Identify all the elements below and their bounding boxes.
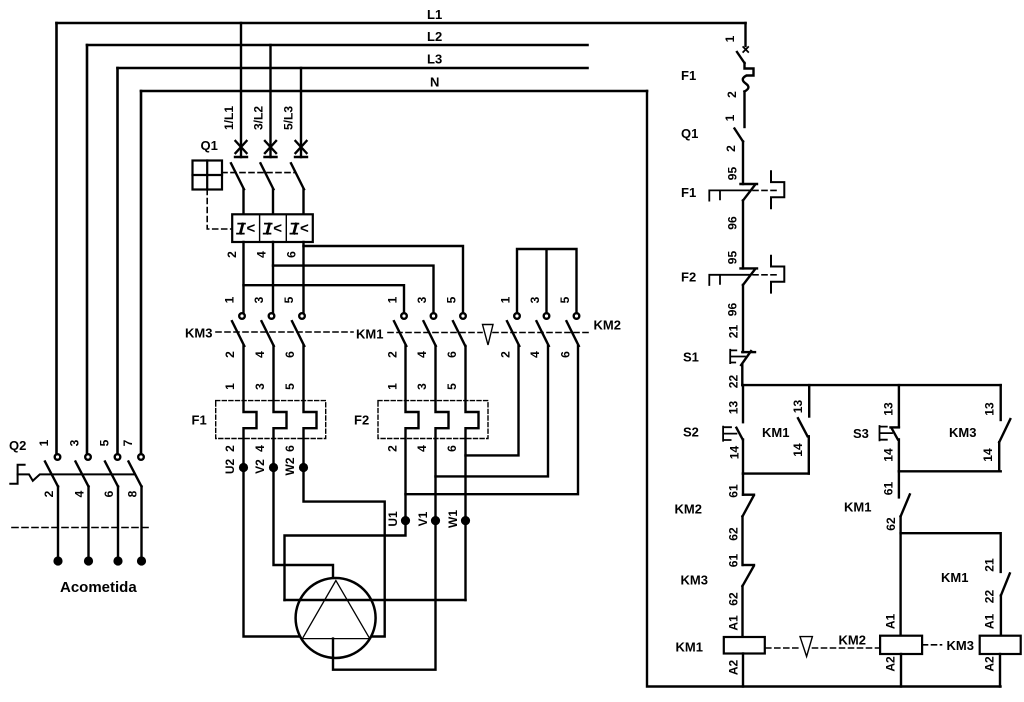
- svg-text:3: 3: [68, 439, 82, 446]
- wire KM1 aux lower: [808, 436, 810, 473]
- relay contact F1 NC 95-96: [741, 183, 758, 185]
- button S3 NO contact: [891, 426, 899, 428]
- svg-text:F1: F1: [681, 68, 696, 83]
- wire L3 left drop to Q2: [116, 68, 119, 454]
- relay F1 thermal element pole2: [274, 346, 287, 464]
- relay Q1 overcurrent trip box I<: [232, 214, 313, 242]
- svg-text:13: 13: [791, 400, 805, 414]
- wire phase B feed to KM1 pole3: [273, 266, 434, 314]
- svg-text:62: 62: [884, 517, 898, 531]
- svg-text:22: 22: [982, 590, 996, 604]
- contact KM3 aux NO 13-14: [999, 419, 1010, 442]
- wire KM2NC to KM3NC: [741, 516, 743, 565]
- svg-text:6: 6: [102, 490, 116, 497]
- wire S3 parallel join: [899, 470, 1001, 472]
- svg-text:1: 1: [386, 296, 400, 303]
- coil KM3 box: [980, 636, 1021, 654]
- svg-text:V1: V1: [416, 511, 430, 526]
- wire N line: [141, 90, 647, 93]
- node U2 junction dot: [240, 464, 247, 471]
- relay F1 thermal element pole1: [244, 346, 257, 464]
- wire Q2 pole4 lower: [140, 487, 142, 559]
- contactor KM1 pole2 contact: [431, 313, 437, 319]
- svg-text:14: 14: [728, 446, 742, 460]
- wire L1 line: [57, 22, 746, 25]
- svg-text:5: 5: [558, 296, 572, 303]
- contactor KM2 pole1 contact: [514, 313, 520, 319]
- wire Q1 pole3 to overload: [302, 189, 304, 214]
- svg-text:13: 13: [983, 402, 997, 416]
- svg-text:KM1: KM1: [762, 425, 789, 440]
- interlock flag symbol: [483, 325, 494, 346]
- wire L1 control drop: [744, 23, 746, 46]
- svg-text:KM1: KM1: [676, 640, 703, 655]
- motor M circle: [296, 578, 376, 658]
- svg-text:W2: W2: [283, 457, 297, 475]
- interlock flag symbol coils: [800, 637, 812, 657]
- wire Q1 dashed linkage: [222, 172, 295, 174]
- wire L1 left drop to Q2: [55, 23, 58, 454]
- wire KM3NC to KM1 coil: [741, 586, 743, 637]
- svg-text:14: 14: [981, 448, 995, 462]
- svg-text:KM3: KM3: [185, 326, 212, 341]
- svg-text:4: 4: [255, 251, 269, 258]
- wire W1 column drop: [464, 517, 466, 600]
- button S2 actuator: [723, 427, 736, 441]
- contactor KM3 pole1 contact: [239, 313, 245, 319]
- wire F2 trip dashed: [753, 274, 780, 276]
- svg-text:Q1: Q1: [681, 126, 698, 141]
- breaker Q1 actuator box with cross: [193, 161, 223, 190]
- wire KM2 pole3 to U1 column: [406, 346, 579, 494]
- svg-text:61: 61: [727, 484, 741, 498]
- wire phase C column to KM3: [302, 242, 304, 313]
- wire Q2 pole3 lower: [117, 487, 119, 559]
- svg-text:1: 1: [723, 35, 737, 42]
- svg-text:62: 62: [727, 592, 741, 606]
- svg-text:8: 8: [126, 490, 140, 497]
- contactor KM3 pole2 contact: [269, 313, 275, 319]
- contact KM1 NC 61-62: [901, 494, 910, 516]
- wire phase A column to KM3: [242, 242, 244, 313]
- wire L2 left drop to Q2: [86, 45, 89, 454]
- wire bus to KM3 aux: [1000, 385, 1002, 420]
- wire F1 to F2 contact: [742, 201, 744, 269]
- contact KM1 2122 NO: [1001, 573, 1010, 595]
- svg-text:A1: A1: [727, 615, 741, 631]
- svg-text:2: 2: [42, 490, 56, 497]
- svg-text:1: 1: [37, 439, 51, 446]
- svg-text:5: 5: [445, 383, 459, 390]
- svg-text:4: 4: [73, 490, 87, 497]
- svg-text:1: 1: [723, 114, 737, 121]
- contact KM2 NC 61-62: [743, 494, 754, 496]
- svg-text:4: 4: [528, 351, 542, 358]
- svg-text:3: 3: [415, 383, 429, 390]
- svg-text:6: 6: [445, 351, 459, 358]
- wire F1 to Q1: [743, 92, 745, 128]
- svg-text:5: 5: [445, 296, 459, 303]
- svg-text:A1: A1: [884, 614, 898, 630]
- wire L1 drop to Q1: [240, 23, 242, 157]
- svg-text:KM2: KM2: [675, 502, 702, 517]
- svg-text:<: <: [300, 220, 309, 237]
- wire V2 to motor top: [274, 464, 334, 579]
- svg-text:S2: S2: [683, 425, 699, 440]
- svg-text:F1: F1: [192, 413, 207, 428]
- wire F2 to S1: [742, 285, 744, 352]
- svg-text:KM3: KM3: [681, 573, 708, 588]
- node W2 junction dot: [300, 464, 307, 471]
- svg-text:KM3: KM3: [947, 638, 974, 653]
- wire S3 branch continues: [898, 471, 900, 497]
- wire coil dashed KM2-KM3: [923, 644, 942, 646]
- svg-text:F1: F1: [681, 185, 696, 200]
- svg-text:2: 2: [724, 145, 738, 152]
- svg-text:3: 3: [528, 296, 542, 303]
- relay contact F2 trip bracket: [771, 256, 784, 293]
- node V2 junction dot: [270, 464, 277, 471]
- wire U1-W1 chord through motor: [285, 599, 466, 601]
- svg-text:1: 1: [499, 296, 513, 303]
- svg-text:<: <: [273, 220, 282, 237]
- relay contact F2 actuator: [709, 275, 750, 285]
- wire Q2 pole1 lower: [57, 487, 59, 559]
- svg-text:W1: W1: [446, 510, 460, 528]
- wire Q1 dashed trip link: [207, 190, 232, 230]
- svg-text:61: 61: [727, 554, 741, 568]
- wire S1 to bus: [741, 365, 743, 385]
- svg-text:<: <: [247, 220, 256, 237]
- switch Q2 pole2 contact: [85, 454, 91, 460]
- button S3 actuator: [880, 426, 893, 440]
- wire KM2 star bus: [517, 249, 577, 313]
- button S1 NC contact: [742, 351, 755, 353]
- node W1 junction dot: [462, 517, 469, 524]
- node Q2 pole2 terminal dot: [85, 558, 92, 565]
- wire bus to S2: [742, 385, 744, 422]
- svg-text:U1: U1: [386, 511, 400, 527]
- svg-text:Q2: Q2: [9, 438, 26, 453]
- relay contact F1 actuator: [709, 190, 750, 200]
- relay F1 dashed box: [216, 401, 326, 439]
- svg-text:6: 6: [445, 445, 459, 452]
- switch Q2 manual handle: [10, 465, 24, 484]
- svg-text:95: 95: [726, 251, 740, 265]
- button S2 NO contact: [736, 428, 742, 440]
- contact KM3 NC 61-62: [743, 564, 754, 566]
- svg-text:KM1: KM1: [356, 327, 383, 342]
- svg-text:2: 2: [225, 251, 239, 258]
- wire S2 parallel join: [743, 472, 809, 474]
- svg-text:13: 13: [727, 401, 741, 415]
- wire phase C feed to KM1 pole5: [304, 246, 464, 313]
- svg-text:7: 7: [121, 439, 135, 446]
- svg-text:4: 4: [253, 351, 267, 358]
- breaker Q1 X terminal pole2: [265, 141, 277, 157]
- breaker Q1 blade pole2: [261, 163, 274, 189]
- wire S2 branch continues: [742, 474, 744, 495]
- wire KM1 2122 to KM3 coil: [1000, 596, 1002, 636]
- wire V1 to motor bottom: [333, 517, 436, 670]
- svg-text:A2: A2: [884, 656, 898, 672]
- fuse-breaker F1 body: [743, 63, 754, 92]
- svg-text:2: 2: [223, 351, 237, 358]
- wire KM2 pole1 to W1 column: [466, 346, 519, 455]
- svg-text:Q1: Q1: [201, 138, 218, 153]
- svg-text:1: 1: [386, 383, 400, 390]
- wire Q1 pole1 to overload: [242, 189, 244, 214]
- relay F2 thermal element pole2: [436, 346, 449, 517]
- svg-text:6: 6: [559, 351, 573, 358]
- svg-text:13: 13: [882, 402, 896, 416]
- wire F1 trip dashed: [753, 189, 780, 191]
- svg-text:S3: S3: [853, 426, 869, 441]
- node Q2 pole4 terminal dot: [138, 558, 145, 565]
- wire S2 lower: [742, 440, 744, 474]
- svg-text:V2: V2: [253, 459, 267, 474]
- svg-text:S1: S1: [683, 350, 699, 365]
- contactor KM2 pole3 contact: [574, 313, 580, 319]
- svg-text:L1: L1: [427, 7, 442, 22]
- wire branch to KM1 2122: [901, 533, 1001, 572]
- svg-text:95: 95: [726, 167, 740, 181]
- wire Q1 pole2 to overload: [272, 189, 274, 214]
- svg-text:2: 2: [386, 445, 400, 452]
- contactor KM1 pole1 contact: [401, 313, 407, 319]
- svg-text:4: 4: [415, 445, 429, 452]
- contactor KM2 pole2 contact: [544, 313, 550, 319]
- svg-text:21: 21: [982, 558, 996, 572]
- relay contact F2 NC 95-96: [741, 267, 758, 269]
- wire S3 lower: [898, 439, 900, 471]
- wire phase A feed to KM1 pole1: [244, 285, 405, 313]
- relay F2 dashed box: [378, 401, 488, 439]
- breaker Q1 blade pole1: [231, 163, 244, 189]
- wire L2 drop to Q1: [269, 45, 271, 157]
- svg-text:5: 5: [98, 439, 112, 446]
- wire interlock dashed flag-KM2: [493, 332, 591, 334]
- wire L3 drop to Q1: [300, 68, 302, 157]
- wire coil interlock dashed left: [766, 647, 800, 649]
- node Q2 pole1 terminal dot: [55, 558, 62, 565]
- svg-text:3: 3: [415, 296, 429, 303]
- svg-text:5: 5: [283, 383, 297, 390]
- svg-text:1: 1: [223, 383, 237, 390]
- svg-text:N: N: [430, 75, 439, 90]
- node U1 junction dot: [402, 517, 409, 524]
- wire KM3 coil to N rail: [999, 654, 1001, 687]
- svg-text:1: 1: [223, 296, 237, 303]
- switch Q2 linkage bar: [18, 474, 135, 480]
- svg-text:L3: L3: [427, 52, 442, 67]
- svg-text:5: 5: [282, 296, 296, 303]
- svg-text:21: 21: [727, 325, 741, 339]
- contact KM1 aux NO 13-14: [798, 418, 808, 436]
- svg-text:KM1: KM1: [844, 500, 871, 515]
- breaker Q1 X terminal pole1: [235, 141, 247, 157]
- switch Q2 pole3 contact: [115, 454, 121, 460]
- svg-text:2: 2: [386, 351, 400, 358]
- wire panel boundary dashed: [12, 527, 150, 529]
- wire N left drop to Q2: [140, 91, 143, 454]
- svg-text:96: 96: [726, 216, 740, 230]
- wire interlock dashed KM1-flag: [388, 332, 482, 334]
- svg-text:4: 4: [253, 445, 267, 452]
- contactor KM1 pole3 contact: [460, 313, 466, 319]
- wire N drop and bottom rail: [647, 91, 1001, 687]
- svg-text:6: 6: [285, 251, 299, 258]
- svg-text:3/L2: 3/L2: [252, 106, 266, 130]
- svg-text:2: 2: [223, 445, 237, 452]
- svg-text:6: 6: [283, 445, 297, 452]
- wire KM3 aux lower: [998, 442, 1000, 471]
- contact Q1 blade: [735, 129, 744, 142]
- fuse-breaker F1 x mark: [743, 47, 748, 52]
- relay F1 thermal element pole3: [304, 346, 317, 464]
- wire control bus: [742, 384, 1000, 386]
- wire U2 to motor: [244, 464, 301, 637]
- relay contact F1 trip bracket: [771, 171, 784, 208]
- svg-text:14: 14: [882, 448, 896, 462]
- relay F2 thermal element pole1: [406, 346, 419, 517]
- breaker Q1 blade pole3: [291, 163, 304, 189]
- svg-text:Acometida: Acometida: [60, 579, 137, 596]
- wire interlock dashed KM3-KM1: [216, 331, 353, 333]
- wire bus to KM1 aux: [808, 385, 810, 416]
- wire L2 line: [87, 44, 588, 47]
- node Q2 pole3 terminal dot: [115, 558, 122, 565]
- button S1 actuator: [730, 350, 745, 363]
- wire Q2 pole2 lower: [87, 487, 89, 559]
- svg-text:A1: A1: [982, 614, 996, 630]
- wire bus to S3: [898, 385, 900, 427]
- coil KM2 box: [880, 636, 922, 654]
- svg-text:KM1: KM1: [941, 570, 968, 585]
- svg-text:F2: F2: [681, 270, 696, 285]
- wire L3 line: [118, 67, 588, 70]
- wire KM2 pole2 to V1 column: [436, 346, 549, 476]
- svg-text:A2: A2: [727, 660, 741, 676]
- svg-text:KM3: KM3: [949, 425, 976, 440]
- wire U1 branch: [285, 517, 406, 600]
- svg-text:KM2: KM2: [594, 318, 621, 333]
- wire W2 to motor: [304, 464, 385, 637]
- svg-text:2: 2: [499, 351, 513, 358]
- wire phase B column to KM3: [272, 242, 274, 313]
- svg-text:6: 6: [283, 351, 297, 358]
- wire KM1 coil to N rail: [742, 654, 744, 687]
- svg-text:14: 14: [791, 443, 805, 457]
- svg-text:3: 3: [253, 383, 267, 390]
- breaker Q1 X terminal pole3: [295, 141, 307, 157]
- contactor KM3 pole3 contact: [299, 313, 305, 319]
- svg-text:4: 4: [415, 351, 429, 358]
- svg-text:F2: F2: [354, 413, 369, 428]
- svg-text:96: 96: [726, 303, 740, 317]
- coil KM1 box: [724, 637, 765, 654]
- svg-text:1/L1: 1/L1: [222, 106, 236, 130]
- svg-text:61: 61: [882, 482, 896, 496]
- svg-text:L2: L2: [427, 29, 442, 44]
- motor delta winding triangle: [302, 581, 369, 639]
- wire KM2 coil to N rail: [900, 654, 902, 687]
- svg-text:3: 3: [252, 296, 266, 303]
- svg-text:22: 22: [727, 375, 741, 389]
- svg-text:U2: U2: [223, 459, 237, 475]
- svg-text:2: 2: [725, 91, 739, 98]
- switch Q2 pole4 contact: [138, 454, 144, 460]
- wire coil interlock dashed right: [813, 647, 880, 649]
- svg-text:62: 62: [727, 527, 741, 541]
- wire Q1 to F1 contact: [742, 142, 744, 185]
- svg-text:A2: A2: [982, 656, 996, 672]
- svg-text:KM2: KM2: [839, 633, 866, 648]
- switch Q2 pole1 contact: [55, 454, 61, 460]
- svg-text:5/L3: 5/L3: [282, 106, 296, 130]
- relay F2 thermal element pole3: [466, 346, 479, 517]
- fuse-breaker F1 blade: [737, 52, 745, 63]
- wire KM1NC to KM2 coil: [899, 516, 901, 635]
- node V1 junction dot: [432, 517, 439, 524]
